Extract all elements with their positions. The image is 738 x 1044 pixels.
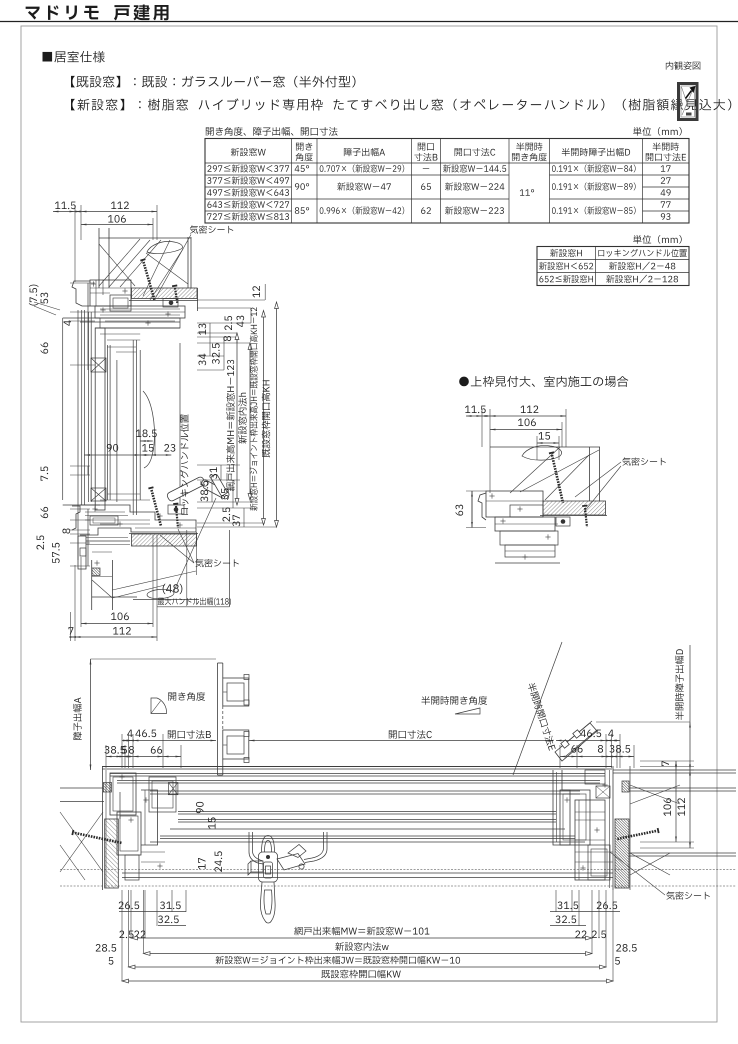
vsec right dim numbers top [252, 286, 260, 297]
detail top dims [465, 406, 486, 414]
vsec head hatch [132, 288, 198, 299]
vsec right inner chains bottom [220, 465, 222, 480]
hsec right jamb profile [553, 770, 570, 845]
vsec left dim chain [87, 283, 89, 370]
table2 grid [537, 247, 689, 286]
spec line new window [71, 98, 731, 110]
hsec crank handle [248, 832, 327, 923]
detail sheet curve [522, 445, 562, 460]
vsec head wall studs [98, 228, 100, 288]
detail lower frame [495, 517, 555, 531]
title underline [0, 21, 738, 23]
hsec B C dims [127, 730, 132, 737]
hsec left screw [75, 833, 122, 843]
vsec casing chamber [95, 328, 105, 510]
page title [26, 4, 169, 20]
hsec long horizontal lines - glass [178, 811, 556, 813]
hsec right side dims 7 106 112 [662, 761, 669, 766]
hsec rotated inner dims [196, 802, 204, 813]
rotated label locking handle [180, 414, 189, 514]
vsec sill hatch [132, 534, 197, 546]
hsec left extension lines [105, 745, 107, 768]
detail wall studs [588, 447, 590, 501]
vsec sill lower trim [86, 537, 128, 539]
vsec glazing verticals [62, 318, 64, 500]
interior elevation label [666, 61, 700, 69]
spec heading [43, 51, 105, 63]
vsec operator handle [166, 476, 230, 502]
table1 unit label [633, 127, 682, 136]
table1 header text [231, 148, 266, 156]
vsec sill attachment [168, 505, 184, 514]
spec line existing window [71, 76, 355, 88]
hsec sash swing fan [151, 698, 167, 714]
table2 unit label [633, 235, 682, 244]
table1 grid [205, 139, 689, 224]
vsec right chain lines [236, 333, 238, 505]
hsec long horizontal lines - frame [102, 766, 612, 768]
detail hatch [543, 501, 606, 515]
hsec right top dims [580, 730, 601, 738]
hsec left wall [105, 819, 119, 888]
hsec open angle label [168, 692, 205, 701]
hsec right wall [615, 819, 629, 888]
vsec head existing frame profile [72, 281, 90, 306]
vsec right rotated labels [226, 360, 235, 491]
hsec half open labels [421, 696, 487, 705]
vsec head lower step lines [80, 321, 180, 323]
detail attachment box [556, 517, 570, 526]
vsec handle dim 48 [163, 584, 183, 594]
vsec head attachment box [163, 299, 178, 308]
hsec kimitsu label right [666, 891, 709, 899]
detail extension lines [481, 409, 483, 447]
vsec left dim chain bottom [70, 465, 90, 467]
vsec sill upper step lines [107, 493, 140, 495]
hsec open sash profile [217, 663, 219, 775]
hsec right extension lines [559, 745, 561, 768]
max handle label [158, 597, 231, 605]
hsec A dim chain [73, 697, 82, 739]
vsec head sealing sheet curve [147, 241, 183, 253]
vsec sill screw [152, 490, 162, 526]
vsec head wall right face [187, 237, 189, 288]
hsec bottom extension verticals [121, 890, 123, 981]
hsec bottom dims right [557, 901, 578, 909]
detail title [459, 376, 628, 387]
kimitsu sheet label top [190, 225, 233, 233]
hsec bottom dims left [119, 901, 139, 909]
hsec D dim chain [675, 649, 684, 720]
vsec head new frame [95, 306, 185, 318]
vsec top dims [55, 202, 76, 210]
vsec sash verticals [106, 345, 108, 500]
vsec locking handle lever [210, 474, 227, 497]
vsec open swing arc [143, 391, 155, 468]
hsec half open sash [555, 721, 597, 761]
vsec extension lines top [74, 205, 76, 282]
vsec sill profile [72, 506, 80, 530]
vsec head screws [144, 262, 155, 300]
vsec locking handle position line [179, 343, 181, 505]
vsec mid dims [136, 429, 157, 437]
detail frame profile [478, 493, 486, 520]
table1 caption [206, 127, 338, 136]
vsec right tick lines bottom [197, 464, 240, 466]
vsec right inner chains top [209, 323, 211, 356]
vsec right tick lines [197, 299, 265, 301]
vsec bottom dims [111, 612, 129, 620]
detail 63 dim [455, 505, 463, 516]
vsec right dim numbers bottom [209, 467, 217, 479]
kimitsu sheet label bottom [195, 559, 238, 567]
hsec mesh lines [60, 869, 736, 871]
table1 body text [207, 164, 289, 172]
hsec bottom dimension rows [294, 927, 429, 936]
table2 text [550, 249, 582, 257]
hsec left jamb profile [110, 773, 136, 815]
detail screws [552, 455, 563, 503]
interior elevation icon [679, 84, 698, 120]
hsec right screw [617, 831, 656, 839]
detail kimitsu label [622, 457, 665, 465]
